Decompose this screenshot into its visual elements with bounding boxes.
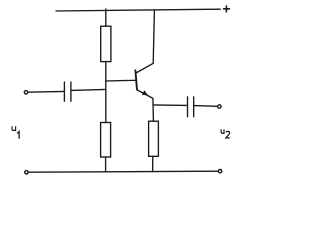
wire output node to C2	[153, 104, 187, 107]
capacitor C1	[64, 82, 71, 101]
wire R2 to ground rail	[105, 157, 107, 172]
transistor Q1 emitter with arrow	[137, 90, 153, 99]
wire C1 to base node	[71, 89, 106, 90]
label u1	[12, 126, 19, 138]
wire R3 to ground rail	[152, 156, 154, 171]
ground terminal left	[25, 171, 28, 174]
wire R1 to base node	[105, 62, 107, 123]
wire emitter to output node and R3	[152, 98, 155, 121]
wire ground rail	[28, 171, 218, 172]
input terminal	[24, 91, 27, 94]
transistor Q1 collector	[136, 10, 154, 73]
wire C2 to output terminal	[194, 105, 218, 108]
wire base node to base	[106, 79, 136, 82]
power terminal +	[224, 6, 230, 12]
wire top supply rail	[56, 9, 220, 11]
resistor R2	[101, 123, 111, 158]
capacitor C2	[188, 97, 194, 117]
wire rail to R1	[105, 9, 107, 26]
transistor Q1 base bar	[135, 70, 137, 89]
resistor R3	[149, 121, 159, 156]
wire input terminal to C1	[28, 90, 64, 93]
label u2	[221, 129, 230, 138]
ground terminal right	[218, 170, 221, 173]
resistor R1	[101, 26, 111, 61]
output terminal	[218, 105, 221, 108]
